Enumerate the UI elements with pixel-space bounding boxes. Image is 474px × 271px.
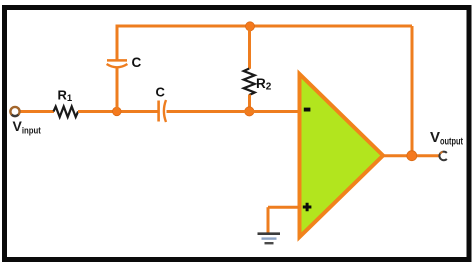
output wire xyxy=(383,154,440,157)
output terminal orange tint xyxy=(440,152,442,154)
capacitor C (feedback, top plate) xyxy=(107,59,127,62)
wire non-inverting input xyxy=(268,206,299,209)
wire R2 bottom lead xyxy=(248,95,251,112)
junction dot output node xyxy=(407,151,417,161)
input terminal dark arc xyxy=(12,115,19,116)
ground top bar xyxy=(258,232,281,235)
wire down to ground xyxy=(267,207,270,233)
wire capacitor up to top rail xyxy=(116,26,119,60)
minus symbol inverting input xyxy=(304,108,311,112)
wire series capacitor to op-amp inverting input xyxy=(167,110,300,113)
junction dot top of R2 xyxy=(246,22,255,31)
plus symbol non-inverting input xyxy=(303,203,312,212)
ground bottom bar xyxy=(265,242,274,244)
node A junction dot xyxy=(113,107,122,116)
top feedback rail wire xyxy=(116,25,413,28)
output terminal xyxy=(439,152,446,161)
feedback right vertical wire xyxy=(411,26,414,156)
capacitor C (feedback, curved plate) xyxy=(107,64,128,67)
resistor R1 xyxy=(54,107,79,118)
op-amp U1 triangle xyxy=(300,74,384,237)
ground middle bar xyxy=(262,237,277,239)
input terminal xyxy=(10,107,19,116)
resistor R2 xyxy=(244,69,255,96)
capacitor C series curved plate xyxy=(164,100,166,122)
capacitor C series left plate xyxy=(157,101,160,122)
wire node A up to feedback capacitor xyxy=(116,67,119,111)
svg-text:C: C xyxy=(132,55,142,70)
svg-text:C: C xyxy=(156,85,166,100)
wire R2 top lead xyxy=(248,26,251,69)
wire input segment xyxy=(20,110,55,113)
junction dot bottom of R2 xyxy=(245,107,254,116)
wire R1 to series capacitor xyxy=(78,110,158,113)
